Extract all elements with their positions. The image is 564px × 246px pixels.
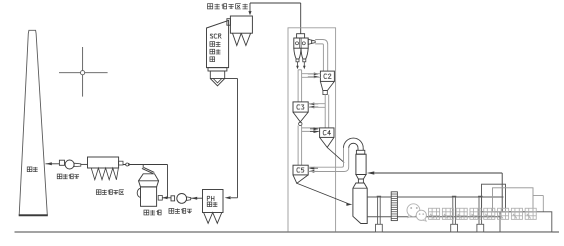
label guolu: [207, 202, 212, 207]
cyclone C3: [293, 102, 308, 112]
mill chute stub: [142, 165, 144, 169]
C5 meal chute to kiln inlet: [297, 183, 348, 203]
smoke chamber: [353, 183, 367, 224]
cooler step line: [533, 195, 543, 197]
SCR reactor U1: [207, 20, 229, 67]
wire fan-steamgen: [81, 163, 88, 165]
wire chimney-fan: [46, 163, 60, 165]
C2 inlet arrows: [308, 73, 318, 75]
SCR flange: [208, 68, 227, 71]
clinker cooler: [500, 212, 552, 232]
label fanying: [210, 49, 215, 54]
cooler box gray: [493, 188, 534, 212]
tower frame: [288, 28, 336, 232]
SCR hopper box: [210, 71, 224, 79]
kiln supports: [377, 195, 381, 197]
label weipaifengji: [57, 174, 62, 179]
duct gooseneck to C5: [308, 148, 343, 167]
riser duct C3 to C2: [297, 70, 299, 102]
SCR-ESP connector: [227, 19, 231, 26]
SCR cone: [210, 79, 224, 86]
C4 meal chute: [327, 147, 344, 162]
mill side bump: [137, 188, 140, 197]
cyclone C4: [320, 128, 334, 137]
label qi: [210, 57, 215, 62]
calciner collar: [356, 150, 364, 154]
C3 inlet arrows: [310, 103, 319, 105]
riser duct C5 to C4: [297, 126, 299, 166]
C1 discharge arrows: [297, 62, 299, 67]
ESP high-temp precipitator: [230, 16, 252, 33]
raw mill body: [139, 174, 159, 187]
PH boiler hopper: [204, 213, 222, 224]
tertiary air line: [374, 172, 502, 174]
C4 inlet arrows: [310, 128, 318, 130]
label tuoxiao: [210, 42, 215, 47]
cyclone C5: [293, 165, 308, 175]
kiln girth gear: [391, 192, 397, 221]
duct C4 to C3: [324, 95, 326, 128]
label gaowenfengji: [169, 208, 174, 213]
fan F2 gaowen: [171, 196, 175, 201]
duct C2 to C1: [315, 40, 328, 72]
cyclone C1: [297, 34, 305, 38]
wire SCR-PH: [231, 197, 238, 199]
calciner reducer: [356, 175, 366, 180]
wire to steamgen with arrow: [123, 164, 168, 166]
label yancong: [27, 167, 32, 172]
fan F1 weipai: [59, 160, 64, 165]
wire top pipe C1-ESP: [250, 2, 301, 4]
crosshair marker: [59, 72, 108, 74]
C5 inlet arrows: [310, 167, 319, 169]
mill feed chute: [142, 168, 153, 173]
kiln head housing: [482, 184, 506, 212]
C1 inlet reducer: [308, 39, 312, 44]
wire PH-fan2 with arrow: [191, 197, 203, 199]
calciner vessel: [356, 154, 366, 174]
label gaowendianchuchenqi: [207, 4, 212, 9]
steam generator: [88, 157, 119, 168]
wire vertical junction: [167, 165, 169, 198]
steamgen outlet nozzle: [119, 161, 123, 165]
arrow into mill: [162, 197, 167, 199]
label yuanliaomo: [144, 210, 149, 215]
watermark text: [429, 208, 440, 219]
wire junction-fan2: [168, 197, 172, 199]
chimney: [19, 30, 47, 215]
label zhengqifashengqi: [96, 190, 101, 195]
gooseneck duct: [344, 138, 364, 148]
rotary kiln shell: [367, 196, 503, 198]
ground line: [15, 231, 560, 233]
cyclone C2: [320, 71, 334, 81]
watermark logo: [407, 204, 426, 221]
ESP hopper V2: [241, 33, 250, 45]
PH boiler: [203, 190, 224, 213]
ESP hopper V1: [233, 33, 242, 45]
